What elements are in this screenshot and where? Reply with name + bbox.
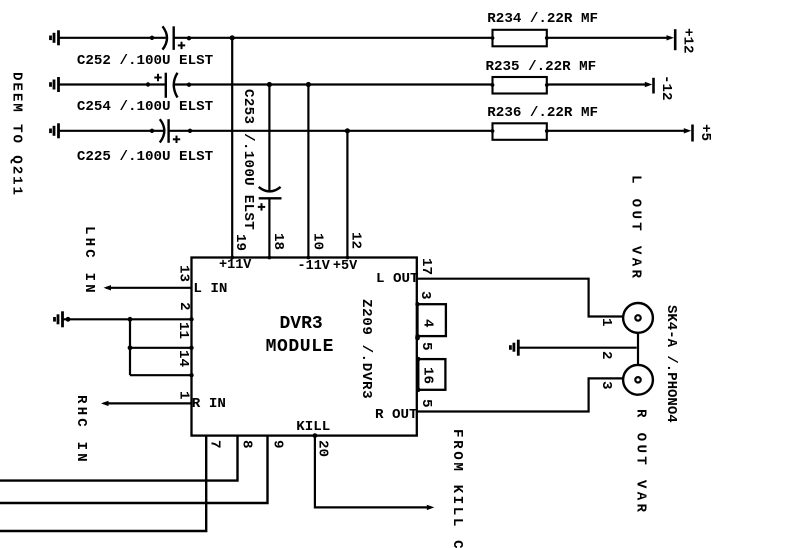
label DEEM TO Q211 [9, 72, 23, 197]
label R OUT [375, 408, 418, 422]
label +11V [219, 259, 251, 273]
label DVR3 [280, 315, 323, 333]
pin 8 [239, 440, 253, 449]
label +5V [333, 260, 357, 274]
pin 18 [271, 233, 285, 250]
pin 13 [176, 265, 190, 282]
pin 11 [176, 322, 190, 339]
capacitor C254 [154, 73, 177, 98]
label LHC IN [82, 226, 96, 296]
wire phono pin2 [518, 347, 636, 349]
resistor R234 [493, 30, 547, 47]
pin 19 [233, 234, 247, 251]
resistor R235 [493, 77, 547, 94]
label SK4-A /.PHONO4 [664, 305, 678, 423]
pin 3 [418, 291, 432, 300]
wire pin7 [0, 436, 206, 531]
terminal -12 [652, 78, 655, 94]
wire line3 right [169, 130, 493, 132]
label R235 [486, 60, 597, 74]
pin 5 mid [419, 342, 433, 351]
wire bus pin12 [346, 131, 348, 258]
label +12 [680, 28, 694, 54]
wire pin5 to phono 3 [417, 378, 623, 411]
phono pin 3 [599, 381, 613, 390]
pin 9 [271, 440, 285, 449]
wire line1 left [59, 37, 166, 39]
pin 10 [310, 233, 324, 250]
wire pin9 [0, 436, 268, 503]
terminal +5 [691, 125, 694, 142]
wire pin17 to phono 1 [417, 279, 623, 317]
label L IN [193, 282, 227, 296]
pin 16 [420, 367, 434, 384]
wire line2 left [59, 83, 166, 85]
label C252 [77, 54, 213, 68]
wire R234 to +12 [547, 37, 668, 39]
wire pin20 (kill out) [315, 436, 428, 508]
wire line3 left [59, 130, 164, 132]
pin 17 [419, 258, 433, 275]
connector pin rect 4 [418, 304, 446, 336]
label C225 [77, 150, 213, 164]
wire phono link [637, 333, 639, 365]
terminal +12 [674, 29, 677, 50]
wire pin13 (L IN) [106, 287, 192, 289]
pin 5 [419, 399, 433, 408]
pin 1 [176, 391, 190, 400]
ground (phono shield) [510, 340, 518, 356]
wire R235 to -12 [547, 83, 646, 85]
wire bus pin19 [231, 38, 233, 258]
ground (pin2) [55, 311, 63, 327]
label FROM KILL C [450, 429, 464, 548]
wire line2 right [174, 83, 493, 85]
node line1/bus19 [230, 35, 235, 40]
wire bus pin18 lower [268, 198, 270, 257]
pin 2 [177, 302, 191, 311]
wire R236 to +5 [547, 130, 685, 132]
label -12 [659, 75, 673, 101]
node pins top edge [230, 256, 349, 260]
pin 7 [208, 440, 222, 449]
phono socket R (SK4-A) [623, 365, 653, 395]
ground (line3 left) [51, 123, 59, 138]
node pin5 mid [415, 336, 420, 341]
ground (line1 left) [51, 30, 59, 45]
label Z209 /.DVR3 [359, 299, 373, 399]
label C253 [241, 89, 255, 230]
wire line1 right [174, 37, 493, 39]
wire pin1 (R IN) [104, 402, 192, 404]
label MODULE [266, 338, 334, 356]
ground (line2 left) [51, 77, 59, 92]
capacitor C225 [160, 119, 180, 143]
label C254 [77, 100, 213, 114]
resistor R236 [493, 123, 547, 140]
label R234 [487, 12, 598, 26]
module DVR3 box [192, 258, 417, 436]
phono pin 2 [599, 351, 613, 360]
phono pin 1 [599, 318, 613, 327]
pin 20 [315, 440, 329, 457]
wire bus pin10 [307, 85, 309, 258]
pin 12 [348, 232, 362, 249]
node line3/bus12 [345, 128, 350, 133]
connector pin rect 16 [418, 359, 445, 390]
phono socket L (SK4-A) [623, 303, 653, 333]
label +5 [698, 124, 712, 141]
label R236 [487, 106, 598, 120]
label KILL [296, 420, 330, 434]
wire pin14 [130, 374, 192, 376]
capacitor C252 [163, 26, 186, 50]
capacitor C253 [258, 187, 282, 211]
label -11V [298, 260, 330, 274]
label L OUT VAR [629, 175, 643, 281]
wire junction vertical [129, 319, 131, 375]
wire pin2 [63, 318, 192, 320]
pin 14 [176, 350, 190, 367]
wire bus pin18 upper [268, 85, 270, 191]
label L OUT [376, 272, 419, 286]
node line2/bus10 [306, 82, 311, 87]
label R OUT VAR [633, 409, 647, 515]
node line2/bus18 [267, 82, 272, 87]
label RHC IN [74, 395, 88, 465]
wire pin8 [0, 436, 238, 481]
label R IN [192, 397, 226, 411]
wire pin11 [130, 347, 192, 349]
pin 4 [420, 319, 434, 328]
